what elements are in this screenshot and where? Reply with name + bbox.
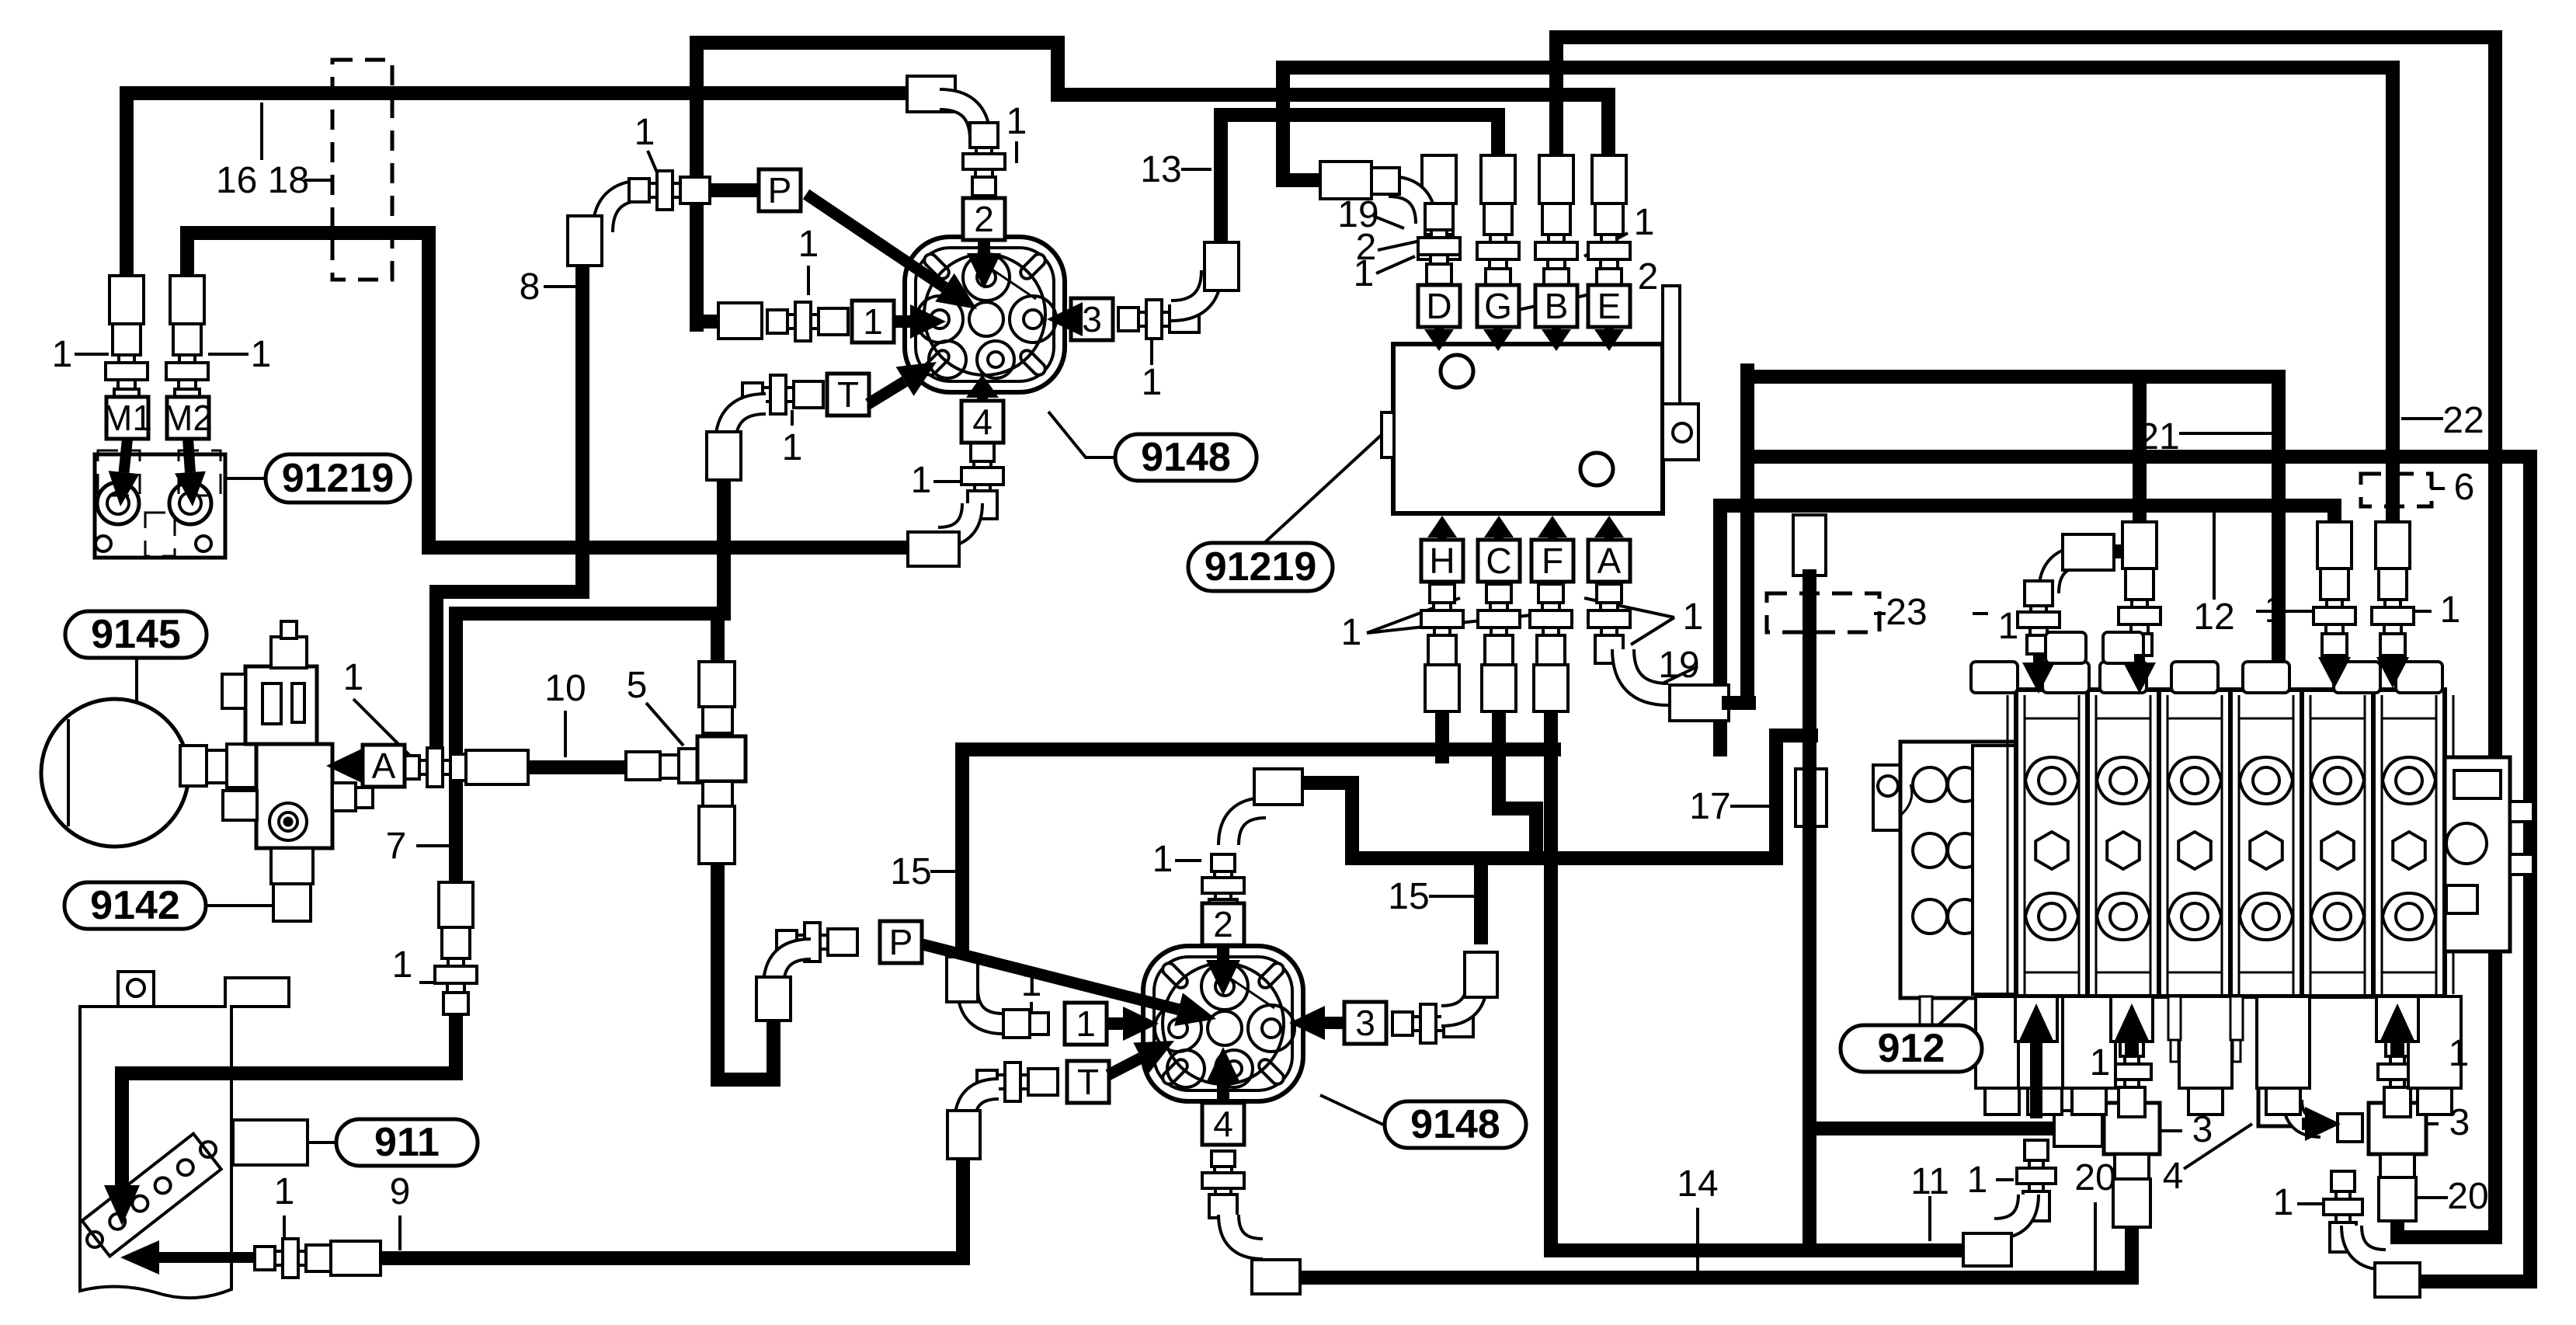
- svg-text:D: D: [1426, 286, 1451, 326]
- svg-text:1: 1: [392, 944, 413, 986]
- svg-text:1: 1: [2273, 1182, 2294, 1223]
- svg-text:M2: M2: [163, 398, 213, 438]
- svg-text:M1: M1: [103, 398, 152, 438]
- svg-text:1: 1: [2440, 589, 2461, 631]
- svg-text:P: P: [889, 922, 913, 962]
- svg-text:91219: 91219: [282, 456, 395, 501]
- svg-text:G: G: [1484, 286, 1512, 326]
- svg-text:3: 3: [2192, 1109, 2213, 1150]
- svg-text:17: 17: [1689, 786, 1730, 827]
- svg-text:2: 2: [1638, 256, 1659, 297]
- svg-text:1: 1: [1341, 612, 1362, 653]
- svg-text:11: 11: [1910, 1161, 1949, 1202]
- svg-text:912: 912: [1878, 1026, 1945, 1071]
- svg-text:1: 1: [1634, 202, 1655, 243]
- svg-text:3: 3: [1355, 1003, 1375, 1043]
- svg-text:1: 1: [782, 427, 803, 468]
- svg-text:15: 15: [890, 851, 931, 892]
- svg-text:12: 12: [2193, 596, 2234, 638]
- svg-text:1: 1: [1021, 963, 1042, 1004]
- svg-text:A: A: [1597, 541, 1622, 581]
- svg-text:T: T: [837, 374, 859, 415]
- svg-text:1: 1: [2090, 1042, 2111, 1083]
- svg-text:1: 1: [1006, 101, 1027, 142]
- svg-text:1: 1: [52, 334, 73, 375]
- svg-text:9145: 9145: [91, 612, 181, 657]
- svg-text:1: 1: [1998, 606, 2019, 647]
- svg-text:1: 1: [2449, 1033, 2470, 1074]
- svg-text:H: H: [1429, 541, 1455, 581]
- svg-text:10: 10: [544, 668, 586, 709]
- svg-text:16 18: 16 18: [216, 160, 309, 201]
- svg-text:E: E: [1597, 286, 1622, 326]
- svg-text:14: 14: [1677, 1163, 1718, 1205]
- svg-text:8: 8: [520, 266, 541, 308]
- svg-text:3: 3: [1082, 299, 1102, 339]
- svg-text:19: 19: [1658, 645, 1699, 686]
- svg-text:3: 3: [2449, 1102, 2470, 1143]
- svg-text:1: 1: [1354, 253, 1375, 294]
- svg-text:911: 911: [374, 1120, 440, 1165]
- svg-text:9148: 9148: [1141, 435, 1231, 480]
- svg-text:4: 4: [2163, 1156, 2184, 1197]
- svg-text:20: 20: [2447, 1176, 2488, 1217]
- svg-text:1: 1: [863, 301, 883, 342]
- svg-text:22: 22: [2442, 400, 2484, 441]
- svg-text:1: 1: [1142, 362, 1163, 403]
- svg-text:13: 13: [1140, 149, 1181, 190]
- svg-text:C: C: [1486, 541, 1511, 581]
- svg-text:7: 7: [386, 826, 407, 867]
- svg-text:F: F: [1542, 541, 1563, 581]
- svg-text:15: 15: [1388, 876, 1429, 917]
- svg-text:4: 4: [1213, 1104, 1233, 1144]
- svg-text:T: T: [1077, 1062, 1099, 1102]
- svg-text:21: 21: [2138, 416, 2179, 457]
- svg-text:1: 1: [911, 460, 932, 501]
- svg-text:1: 1: [1152, 839, 1173, 880]
- svg-text:6: 6: [2454, 467, 2475, 508]
- svg-text:1: 1: [251, 334, 272, 375]
- svg-text:9148: 9148: [1410, 1102, 1500, 1147]
- svg-text:P: P: [768, 170, 792, 210]
- svg-text:1: 1: [1683, 596, 1704, 638]
- svg-text:9142: 9142: [90, 883, 180, 928]
- svg-text:23: 23: [1886, 592, 1927, 633]
- svg-text:4: 4: [972, 402, 993, 442]
- svg-text:20: 20: [2074, 1157, 2115, 1198]
- svg-text:2: 2: [1213, 904, 1233, 944]
- svg-text:B: B: [1545, 286, 1569, 326]
- svg-text:1: 1: [1967, 1160, 1988, 1201]
- svg-text:2: 2: [974, 199, 994, 239]
- svg-text:1: 1: [798, 224, 819, 265]
- svg-text:1: 1: [274, 1171, 295, 1212]
- svg-text:5: 5: [627, 665, 648, 706]
- svg-text:1: 1: [343, 657, 364, 698]
- svg-text:91219: 91219: [1205, 544, 1317, 589]
- svg-text:9: 9: [390, 1171, 411, 1212]
- svg-text:A: A: [372, 746, 396, 786]
- svg-text:1: 1: [2265, 589, 2286, 631]
- svg-text:1: 1: [1076, 1003, 1096, 1044]
- svg-text:1: 1: [634, 112, 655, 153]
